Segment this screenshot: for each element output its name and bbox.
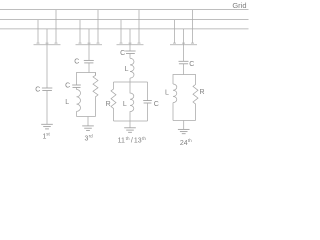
capacitor C (3rd branch series) (74, 59, 94, 66)
ground branch3 (124, 128, 136, 133)
svg-text:R: R (106, 101, 111, 108)
wire branch4 to ground (183, 121, 185, 130)
svg-text:/: / (131, 138, 133, 145)
wire branch3 center tap from bus C (129, 29, 132, 51)
svg-text:L: L (125, 66, 129, 73)
wire branch2 tap left from bus B (79, 20, 82, 43)
svg-text:C: C (35, 87, 40, 94)
wire branch4 split bar (173, 75, 196, 85)
capacitor C (11/13th branch) (143, 82, 159, 121)
inductor L (11/13th branch) (123, 82, 134, 121)
capacitor C (3rd branch left leg) (65, 83, 81, 90)
wire bus phase B (0, 19, 249, 21)
svg-text:th: th (126, 136, 130, 141)
wire branch2 split bar (77, 73, 96, 86)
resistor (3rd branch damping leg) (93, 73, 98, 117)
svg-text:C: C (189, 61, 194, 68)
wire (129, 78, 131, 82)
wire branch4 tap left from bus B (173, 20, 176, 43)
capacitor C (1st branch) (35, 87, 52, 94)
svg-text:st: st (46, 132, 50, 137)
ground branch2 (82, 126, 94, 130)
svg-text:C: C (74, 59, 79, 66)
wire branch3 parallel bottom bar (114, 120, 148, 122)
inductor L (3rd branch left leg) (65, 90, 80, 112)
node branch4 collector bar (170, 44, 197, 46)
wire branch2 bottom bar (77, 116, 96, 118)
ground branch1 (41, 124, 53, 129)
node branch3 collector bar (117, 44, 144, 46)
svg-text:R: R (199, 89, 204, 96)
resistor R (11/13th branch) (106, 82, 116, 121)
wire (76, 111, 78, 116)
capacitor C (11/13th branch series) (120, 50, 135, 57)
svg-text:C: C (154, 101, 159, 108)
node branch1 collector bar (34, 44, 61, 46)
wire branch1 tap right from bus A (55, 10, 58, 44)
wire bus phase C (0, 28, 249, 30)
svg-text:24: 24 (180, 140, 188, 147)
wire branch3 tap right from bus A (138, 10, 141, 44)
wire branch2 cap to split (88, 63, 90, 73)
wire branch3 parallel top bar (114, 81, 148, 83)
inductor L (11/13th branch series) (125, 58, 134, 78)
wire branch3 tap left from bus B (120, 20, 123, 43)
node branch2 collector bar (76, 44, 103, 46)
capacitor C (24th branch series) (179, 61, 195, 68)
wire bus phase A (0, 9, 249, 11)
svg-text:th: th (188, 138, 192, 143)
svg-text:13: 13 (134, 138, 142, 145)
svg-text:L: L (65, 99, 69, 106)
inductor L (24th branch) (165, 84, 177, 103)
resistor R (24th branch) (193, 84, 205, 121)
wire (172, 103, 174, 121)
wire (129, 54, 131, 59)
wire branch4 bottom bar (173, 120, 196, 122)
svg-text:Grid: Grid (232, 1, 246, 10)
wire branch4 center tap from bus C (182, 29, 185, 61)
svg-text:C: C (120, 50, 125, 57)
wire branch1 tap left from bus B (37, 20, 40, 43)
wire branch2 to ground (87, 117, 89, 126)
wire branch2 center tap from bus C (88, 29, 91, 61)
wire branch4 cap to split (183, 64, 185, 75)
wire branch3 to ground (129, 121, 131, 128)
wire branch2 tap right from bus A (97, 10, 100, 44)
wire branch1 center tap from bus C (46, 29, 49, 88)
ground branch4 (178, 129, 190, 133)
wire branch1 to ground (46, 91, 48, 125)
wire (76, 87, 78, 89)
svg-text:11: 11 (118, 138, 125, 145)
svg-text:L: L (123, 101, 127, 108)
svg-text:th: th (142, 136, 146, 141)
wire branch4 tap right from bus A (191, 10, 194, 44)
svg-text:rd: rd (89, 134, 94, 139)
node label 11th/13th (118, 136, 147, 145)
svg-text:C: C (65, 83, 70, 90)
svg-text:L: L (165, 90, 169, 97)
